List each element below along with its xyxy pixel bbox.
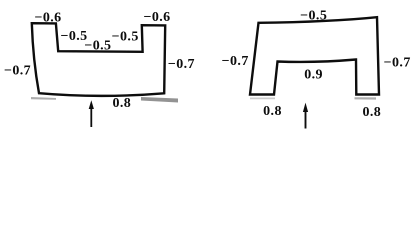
smudge under left vessel bottom-left [31,97,56,100]
svg-text:0.8: 0.8 [362,105,381,120]
smudge under left vessel bottom-right [141,97,178,103]
svg-text:−0.7: −0.7 [384,56,411,71]
svg-text:0.8: 0.8 [112,96,131,111]
smudge under right vessel right foot [355,97,377,99]
left vessel outline (U-shaped container, open top) [32,23,165,96]
svg-text:−0.5: −0.5 [84,39,111,54]
svg-text:−0.7: −0.7 [168,57,195,72]
up arrow under left vessel [89,100,94,127]
svg-text:−0.6: −0.6 [34,10,61,25]
right vessel outline (inverted-U / table shape) [250,17,379,94]
svg-text:−0.5: −0.5 [300,9,327,24]
svg-text:−0.7: −0.7 [222,54,249,69]
svg-text:−0.5: −0.5 [112,29,139,44]
svg-text:−0.7: −0.7 [4,63,31,78]
smudge under right vessel left foot [250,98,275,100]
svg-text:−0.6: −0.6 [143,10,170,25]
up arrow under right vessel [303,103,308,129]
svg-text:0.8: 0.8 [263,104,282,119]
svg-text:0.9: 0.9 [304,68,323,83]
